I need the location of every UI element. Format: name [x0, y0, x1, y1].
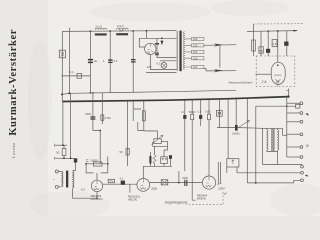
node thick end	[287, 95, 289, 97]
wire mains lead 2	[204, 69, 236, 71]
wire x184.8 drop	[184, 100, 186, 171]
T3 left coil	[267, 130, 268, 151]
tube V2	[137, 179, 150, 192]
svg-text:5000: 5000	[85, 112, 91, 116]
wire stub y158	[55, 157, 74, 159]
wire dashed top right	[254, 23, 304, 25]
terminal box PU	[216, 110, 222, 116]
wire bottom collect	[247, 182, 293, 184]
arrow mains 2	[214, 69, 223, 72]
svg-text:230V: 230V	[217, 186, 226, 190]
wire x127.5 drop	[127, 101, 129, 166]
svg-text:1000: 1000	[205, 111, 211, 114]
wire V1 cathode	[96, 192, 98, 199]
node j4	[267, 30, 269, 32]
svg-text:220: 220	[193, 37, 198, 41]
svg-text:50: 50	[120, 150, 124, 154]
svg-text:30: 30	[56, 150, 60, 154]
svg-text:220: 220	[193, 56, 198, 60]
wire x102 drop	[101, 93, 103, 124]
transformer T3	[263, 128, 283, 164]
wire trafo feed	[75, 163, 77, 171]
terminal input 2	[55, 185, 58, 188]
capacitor block C10	[121, 181, 125, 185]
transformer T2 primary	[62, 172, 63, 187]
wire x200.7 drop	[200, 100, 202, 126]
wire x143.8 drop	[138, 101, 144, 131]
wire thin x92.9 drop	[93, 93, 100, 164]
dashed box rectifier	[256, 56, 295, 87]
wire x236 feed	[235, 99, 237, 125]
svg-text:50: 50	[260, 49, 264, 53]
terminal t5	[287, 146, 300, 148]
capacitor block C9	[74, 158, 78, 162]
choke L2	[117, 28, 129, 30]
resistor R right1	[252, 40, 256, 51]
capacitor block x200.7	[199, 115, 202, 119]
node j5	[277, 30, 279, 32]
terminal t3	[287, 121, 300, 123]
wire top right bus	[247, 30, 297, 33]
terminal input 1	[55, 170, 58, 173]
svg-text:110: 110	[193, 50, 198, 54]
tube V4	[145, 43, 156, 54]
capacitor box X	[161, 180, 168, 185]
wire vertical x133	[132, 31, 134, 93]
resistor R 30	[63, 145, 65, 158]
svg-text:4μ: 4μ	[94, 59, 98, 63]
terminal t4	[287, 133, 300, 135]
resistor R 50000	[93, 162, 102, 166]
wire vertical x90.5	[89, 31, 91, 93]
terminal t6	[287, 156, 300, 158]
wire cap stack vertical	[156, 38, 158, 57]
wire x209 drop	[208, 99, 210, 176]
potentiometer P2	[217, 127, 239, 129]
T3 right coil	[278, 130, 279, 151]
capacitor C 5000	[90, 116, 95, 119]
terminal t9	[294, 180, 301, 183]
wire mains link	[219, 45, 221, 68]
tube V1	[91, 180, 102, 191]
wire x219 from bus	[218, 99, 220, 128]
wire double beside V3	[218, 162, 220, 184]
capacitor block C7	[266, 49, 270, 53]
box switch	[227, 159, 239, 167]
svg-text:(RE134): (RE134)	[128, 198, 137, 201]
wire vertical x253.5	[253, 24, 255, 56]
svg-text:50000: 50000	[90, 158, 98, 162]
resistor zigzag	[153, 155, 156, 163]
capacitor coupling bars	[184, 180, 187, 186]
wire x228 drop	[227, 99, 229, 159]
capacitor block C8	[284, 42, 288, 46]
svg-text:Kurmark-Verstärker: Kurmark-Verstärker	[8, 29, 19, 136]
wire x133.8 drop	[132, 101, 134, 121]
capacitor 0,1	[77, 74, 82, 79]
svg-text:5000: 5000	[182, 176, 188, 180]
wire vertical x268	[267, 31, 269, 56]
svg-text:110: 110	[193, 65, 198, 69]
capacitor bar dark	[149, 156, 151, 164]
resistor R x192.2	[191, 114, 194, 120]
capacitor C6	[155, 53, 159, 56]
capacitor C 2uF	[131, 59, 136, 63]
wire y106	[256, 105, 296, 107]
node j3	[146, 30, 148, 32]
rail terminals	[286, 97, 288, 157]
svg-text:125: 125	[193, 43, 198, 47]
lamp La	[161, 63, 167, 69]
terminal box	[296, 104, 300, 108]
resistor R x102	[101, 115, 104, 120]
wire heater h1	[157, 57, 177, 59]
wire pot top feed	[144, 131, 158, 139]
svg-text:0,5M: 0,5M	[105, 116, 111, 120]
terminal t1	[287, 102, 300, 104]
wire x192.2 drop	[192, 100, 195, 200]
wire V2 下 label lead	[129, 184, 131, 193]
wire x179 up	[178, 171, 180, 183]
capacitor block C11	[169, 155, 172, 159]
svg-text:50000: 50000	[134, 107, 142, 111]
wire top bus	[62, 30, 176, 33]
arrow mains 1	[214, 44, 223, 47]
capacitor C 1uF	[108, 59, 112, 63]
wire vertical x110	[109, 31, 111, 93]
resistor box x164	[161, 157, 168, 164]
svg-text:μF: μF	[224, 191, 227, 195]
svg-text:(RE604): (RE604)	[197, 198, 206, 201]
terminal t8	[237, 167, 301, 173]
wire T3 bottom drop	[277, 152, 279, 165]
wire heater rect	[256, 73, 272, 75]
transformer T1 core	[179, 31, 181, 72]
node j6	[178, 182, 180, 184]
wire x108 up	[107, 157, 109, 164]
terminal t7	[263, 164, 303, 167]
T3 core	[272, 129, 274, 151]
node dots on buses	[90, 92, 92, 94]
capacitor C5	[155, 43, 159, 45]
choke L1	[95, 28, 107, 30]
wire antenna vertical	[68, 28, 70, 94]
wire x247 drop	[246, 98, 248, 183]
svg-text:0,5: 0,5	[81, 188, 85, 192]
transformer T1 primary	[177, 31, 178, 71]
wire x70.5 drop	[70, 93, 72, 158]
potentiometer P1	[153, 141, 168, 146]
bus thin	[62, 90, 236, 94]
svg-text:0,1: 0,1	[120, 177, 124, 181]
transformer T2 core	[66, 171, 68, 188]
wire dashed feedback	[189, 191, 224, 205]
wire funnel V1	[86, 164, 108, 181]
svg-text:2×1,5: 2×1,5	[96, 24, 103, 28]
wire V2-V3	[150, 182, 203, 184]
capacitor C 4uF	[88, 59, 93, 63]
wire T3 out right	[283, 134, 288, 136]
resistor R 50	[126, 148, 129, 155]
resistor R 2,5	[272, 40, 277, 47]
wire secondary bottom	[73, 188, 97, 198]
svg-text:209: 209	[150, 187, 157, 191]
wire heater h3	[150, 55, 176, 70]
switch S1	[59, 50, 65, 58]
transformer T2 secondary	[73, 171, 74, 189]
wire grid circuit V1	[86, 163, 108, 165]
wire vertical x286.5	[286, 31, 288, 56]
tube V5 rectifier	[271, 62, 285, 84]
wire mains lead 1	[204, 44, 236, 47]
svg-text:0,1: 0,1	[114, 59, 119, 63]
svg-text:127: 127	[147, 65, 152, 69]
svg-text:Gegenkopplung: Gegenkopplung	[165, 201, 188, 205]
svg-text:2 A: 2 A	[261, 80, 268, 84]
capacitor block x184.8	[183, 115, 186, 119]
wire x63 drop	[62, 102, 64, 146]
svg-text:0,1: 0,1	[70, 70, 75, 74]
wire heater h2	[160, 60, 177, 62]
tube V3	[202, 176, 215, 189]
resistor grid box	[108, 179, 114, 183]
cathode network V2	[143, 146, 172, 178]
bus thick	[62, 97, 288, 102]
resistor R x143.8	[142, 111, 145, 121]
transformer T1 secondary	[183, 32, 184, 70]
svg-text:2μF: 2μF	[119, 29, 124, 33]
wire pot to trafo	[239, 127, 263, 130]
wire y76	[62, 75, 91, 77]
node j0	[90, 30, 92, 32]
wire x255.8 drop	[255, 106, 257, 183]
wire V1-V2	[103, 183, 137, 185]
transformer tap boxes	[185, 37, 204, 69]
svg-text:Netzanschlußkabel: Netzanschlußkabel	[229, 81, 253, 85]
wire vertical x277.8	[277, 31, 279, 63]
svg-text:Lorenz: Lorenz	[11, 142, 16, 158]
resistor R x209	[208, 114, 211, 120]
svg-text:50000: 50000	[189, 111, 196, 114]
wire grid drop	[139, 31, 176, 47]
terminal t2	[287, 112, 300, 114]
svg-text:6,3: 6,3	[157, 61, 161, 65]
wire rectifier out	[287, 89, 289, 97]
node j1	[109, 30, 111, 32]
wire heater h4	[146, 72, 176, 74]
wire stub y145	[55, 144, 68, 146]
resistor R right2	[259, 47, 263, 53]
node thin end	[68, 92, 70, 94]
node j2	[132, 30, 134, 32]
wire left vertical	[61, 31, 63, 101]
svg-text:0,5MΩ: 0,5MΩ	[232, 131, 240, 135]
svg-text:2,5: 2,5	[273, 42, 277, 46]
wire vertical x261	[260, 31, 262, 56]
arrow bus end	[294, 30, 298, 32]
